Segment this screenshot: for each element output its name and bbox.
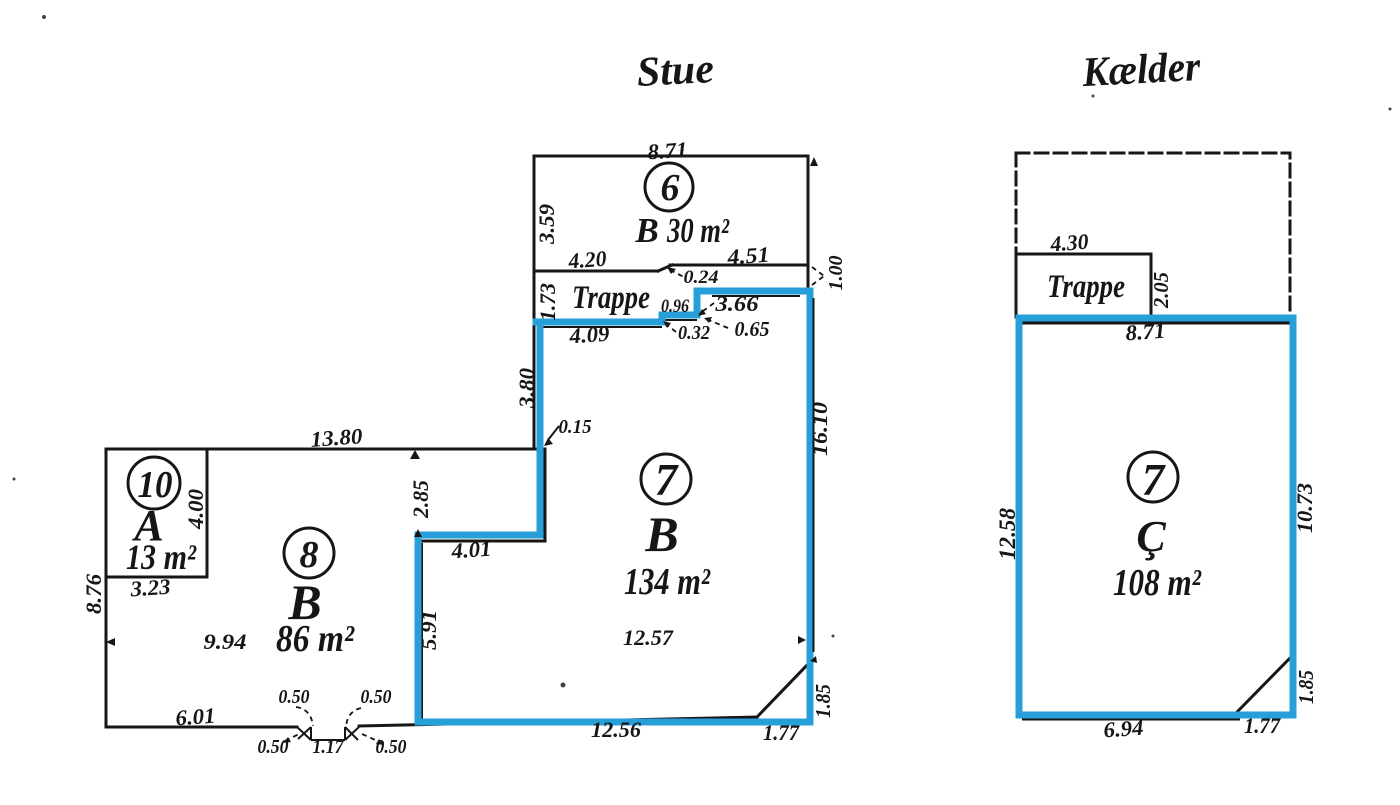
svg-text:7: 7 (1142, 455, 1166, 505)
svg-text:0.50: 0.50 (279, 686, 310, 708)
svg-text:7: 7 (655, 455, 679, 505)
bottom wall black (1022, 719, 1240, 721)
door arc right (346, 708, 361, 726)
svg-text:8.71: 8.71 (1125, 318, 1167, 346)
svg-text:4.30: 4.30 (1049, 229, 1090, 257)
arrow 12.57 (798, 636, 806, 644)
svg-text:30 m²: 30 m² (666, 211, 730, 250)
svg-text:0.65: 0.65 (735, 317, 770, 341)
svg-text:2.05: 2.05 (1149, 272, 1173, 309)
svg-text:6: 6 (661, 167, 680, 209)
svg-text:12.58: 12.58 (995, 507, 1020, 560)
black wall 5.91 (421, 543, 423, 720)
svg-text:B: B (634, 211, 658, 250)
svg-text:13.80: 13.80 (310, 423, 364, 452)
svg-text:134 m²: 134 m² (624, 561, 711, 603)
leader 0.24 (670, 270, 686, 278)
leader 0.32 (665, 323, 676, 332)
step 0.15 at 13.80 end (534, 448, 545, 450)
arrow room6 top-right (810, 157, 818, 166)
blue highlight outline (418, 291, 810, 722)
svg-text:4.00: 4.00 (183, 489, 208, 530)
svg-text:Stue: Stue (636, 46, 715, 96)
step 0.24 (658, 265, 672, 271)
right wall below 4.51 (807, 265, 810, 291)
svg-text:9.94: 9.94 (204, 629, 247, 654)
svg-text:3.59: 3.59 (534, 204, 559, 245)
svg-text:1.17: 1.17 (313, 736, 345, 758)
black wall 4.01 (420, 540, 545, 543)
svg-text:1.85: 1.85 (1294, 670, 1318, 704)
bay window recess (297, 727, 359, 740)
svg-text:1.85: 1.85 (811, 684, 835, 718)
svg-text:3.80: 3.80 (514, 368, 539, 409)
svg-text:5.91: 5.91 (416, 610, 441, 650)
svg-text:0.50: 0.50 (376, 736, 407, 758)
svg-text:4.51: 4.51 (726, 242, 771, 270)
svg-text:4.01: 4.01 (450, 536, 493, 564)
dashed outer outline (1016, 153, 1290, 313)
wall 13.80 (106, 448, 537, 451)
room 10 box (106, 450, 207, 577)
black wall edge right of blue 16.10 (813, 298, 815, 652)
black wall step 0.96 (662, 319, 697, 321)
black wall under blue 4.09 (538, 326, 662, 328)
svg-text:10.73: 10.73 (1292, 483, 1317, 533)
door arc left (296, 707, 313, 726)
svg-text:8.76: 8.76 (81, 574, 106, 614)
svg-text:Ç: Ç (1136, 512, 1166, 561)
svg-text:12.57: 12.57 (623, 625, 674, 650)
corner diagonal 1.77/1.85 (757, 662, 810, 717)
svg-text:3.66: 3.66 (714, 291, 758, 316)
svg-text:2.85: 2.85 (408, 480, 433, 519)
svg-text:0.32: 0.32 (678, 322, 710, 344)
labels left plan (81, 137, 847, 758)
leader 0.15 (548, 426, 559, 440)
svg-text:3.23: 3.23 (129, 574, 172, 602)
wall 8.71 under blue (1022, 322, 1290, 325)
room number 8 circle (284, 528, 334, 578)
leader 0.50 bottom-right (362, 734, 382, 743)
svg-text:0.15: 0.15 (559, 416, 592, 438)
svg-text:86 m²: 86 m² (276, 618, 355, 660)
leader 0.50 bottom-left (285, 734, 299, 741)
blue highlight rectangle (1019, 318, 1293, 715)
labels right plan (995, 229, 1318, 743)
svg-text:0.96: 0.96 (661, 296, 689, 317)
svg-text:0.50: 0.50 (258, 736, 289, 758)
room 6 bottom wall 4.51 segment (670, 264, 808, 267)
svg-text:4.09: 4.09 (568, 321, 611, 349)
svg-text:8.71: 8.71 (647, 137, 689, 165)
room 6 bottom wall 4.20 segment (534, 270, 658, 273)
trappe box (1016, 254, 1151, 317)
room 6 outline (534, 156, 808, 449)
arrow diagonal top (810, 656, 817, 663)
svg-text:Trappe: Trappe (572, 280, 650, 316)
svg-text:108 m²: 108 m² (1113, 562, 1202, 604)
svg-text:Trappe: Trappe (1047, 269, 1125, 305)
svg-text:12.56: 12.56 (591, 717, 641, 742)
tick at blue corner (414, 529, 422, 537)
svg-text:1.00: 1.00 (825, 256, 847, 291)
svg-text:1.77: 1.77 (763, 720, 800, 745)
svg-text:B: B (644, 506, 678, 562)
black wall under 3.66 (712, 295, 800, 297)
leader 3.66 (699, 303, 714, 314)
arrow 2.85 (410, 450, 420, 459)
svg-text:6.94: 6.94 (1103, 715, 1145, 743)
svg-text:6.01: 6.01 (175, 703, 217, 731)
svg-text:8: 8 (300, 534, 319, 576)
svg-text:4.20: 4.20 (567, 246, 608, 274)
room number 10 circle (128, 457, 180, 509)
bottom wall 12.56 black (359, 717, 757, 726)
corner diagonal (1237, 656, 1292, 712)
left outer wall 8.76 (105, 449, 108, 727)
room number 6 circle (645, 163, 693, 211)
room number 7 circle (1128, 452, 1178, 502)
leader 0.65 (706, 319, 728, 328)
svg-text:13 m²: 13 m² (126, 537, 197, 577)
svg-text:Kælder: Kælder (1080, 44, 1202, 96)
svg-text:0.50: 0.50 (361, 686, 392, 708)
wall 2.85 (544, 449, 547, 541)
bottom wall 6.01 (106, 726, 297, 729)
svg-text:16.10: 16.10 (807, 402, 832, 456)
svg-text:1.73: 1.73 (535, 283, 560, 321)
svg-text:10: 10 (138, 464, 173, 506)
svg-text:1.77: 1.77 (1244, 713, 1281, 738)
room number 7 circle (641, 454, 691, 504)
arrow left wall (106, 638, 115, 646)
svg-text:0.24: 0.24 (684, 267, 719, 288)
leader 1.00 chevron (812, 267, 824, 285)
